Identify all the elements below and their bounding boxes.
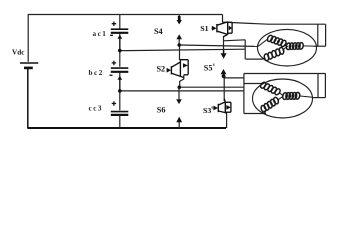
plus above c3 (112, 101, 116, 105)
S2 diode (187, 60, 189, 75)
node a wire (120, 49, 245, 51)
S1 emitter wire down (223, 36, 225, 53)
lower motor box top edge (244, 73, 326, 75)
bottom rail (28, 127, 226, 129)
S1 gate bar (216, 24, 218, 32)
S3 body (218, 102, 225, 105)
upper motor box top edge (223, 22, 326, 24)
svg-text:ac1: ac1 (93, 30, 108, 38)
long vertical wire x=243.9 (box corner to lower winding) (243, 74, 245, 114)
motor 1 (upper machine) (258, 29, 317, 66)
motor1 upper-left winding (258, 34, 287, 47)
wire below c3 (119, 116, 121, 128)
vertical x=245.4 (S1 line down to lower coil) (244, 40, 246, 59)
left wire upper (27, 14, 29, 62)
S2 diode bottom connect (184, 74, 188, 76)
S1 body (217, 22, 228, 25)
node b junction dot at capacitor column (118, 89, 122, 93)
left wire lower (27, 69, 29, 129)
S2 collector-emitter bar (179, 62, 181, 77)
S3 gate bar (217, 104, 219, 112)
motor2 upper-left winding (259, 81, 283, 96)
S3 top pin (224, 99, 225, 102)
top rail (28, 14, 223, 16)
plus/minus marks (110, 22, 117, 106)
S1 collector-emitter bar (227, 22, 229, 35)
motor 2 (lower machine) (253, 79, 313, 118)
plus above c2 (112, 61, 116, 65)
lower motor box right edge (324, 73, 326, 97)
minus below c1 (110, 34, 113, 36)
S1 down arrow to S5 (221, 53, 227, 59)
S5-S3 column wire down (223, 76, 225, 101)
node b wire (120, 90, 244, 92)
up arrow below c2 (118, 76, 123, 80)
S1 gate arrow (212, 27, 214, 29)
S1 column: rail corner down (222, 15, 224, 23)
S6 down arrow (176, 99, 182, 104)
S3 diode (225, 101, 231, 103)
S1 emitter junction line right (224, 40, 246, 41)
S4 down arrow (top stub) (178, 16, 181, 20)
svg-text:S6: S6 (157, 106, 166, 115)
M2 mid wire from S6 junction (179, 86, 244, 88)
battery Vdc short thick plate (24, 67, 33, 70)
motor1 lower-left winding (263, 47, 287, 61)
S2 top pin to diode (180, 60, 188, 62)
lower motor box inner vertical (317, 74, 319, 98)
S4 junction dot (177, 43, 181, 47)
capacitor c2 plates (111, 67, 129, 69)
S4 stem to junction (178, 39, 180, 45)
S3 gate arrow (213, 107, 215, 109)
up arrow below c1 (118, 35, 123, 39)
S5 wire right (224, 77, 244, 79)
upper motor box inner vertical (317, 24, 319, 46)
labels (12, 24, 214, 115)
S1 diode (228, 21, 232, 23)
S5 junction stem up-arrow wire (223, 74, 225, 77)
svg-text:S1: S1 (200, 24, 208, 33)
wire below c1 (119, 34, 121, 51)
IGBT S3 (213, 99, 231, 114)
svg-text:cc3: cc3 (89, 104, 103, 112)
motor1 right winding (286, 42, 314, 50)
S6 up arrow (176, 117, 182, 123)
node a junction dot at capacitor column (118, 49, 122, 53)
node b wire to motor2 lower coil (244, 113, 266, 115)
svg-text:S5: S5 (204, 64, 213, 73)
motor1 ellipse (258, 29, 317, 66)
capacitor column wire top (119, 15, 121, 29)
svg-text:bc2: bc2 (89, 69, 104, 77)
M1 mid wire from S4 junction (179, 45, 258, 46)
S3 bottom pin to bottom rail (226, 112, 228, 128)
motor2 ellipse (253, 79, 313, 118)
S3 emitter lead (225, 112, 226, 115)
S2 gate arrow (167, 69, 169, 71)
S2 body (172, 62, 181, 67)
capacitor c3 plates (111, 111, 129, 113)
IGBT S2 (167, 60, 189, 78)
S2 emitter lead (180, 76, 183, 77)
wire c2-c3 (119, 91, 121, 110)
S5 junction dot (222, 74, 226, 78)
S2 bottom pin (180, 75, 184, 87)
wire c1-c2 (119, 51, 121, 67)
S6 stem to bottom rail (178, 121, 180, 128)
battery Vdc long plate (20, 62, 38, 64)
plus above c1 (112, 22, 116, 26)
motor2 right winding (282, 92, 312, 100)
S1 emitter lead (224, 34, 228, 36)
S5 up arrow (221, 69, 227, 74)
wire to M1 lower-left coil (245, 58, 262, 60)
S6 stub below junction (178, 87, 180, 99)
S4 up arrow (to junction) (176, 34, 182, 39)
switch S4 stub from rail (178, 15, 180, 21)
S6 junction dot (178, 85, 182, 89)
svg-text:S2: S2 (157, 64, 166, 73)
junction dots (118, 43, 226, 92)
svg-text:Vdc: Vdc (12, 49, 25, 57)
arrows (118, 16, 227, 122)
wire below c2 (119, 73, 121, 91)
lower motor box bottom edge to coil (313, 97, 326, 99)
S3 collector-emitter bar (224, 102, 226, 113)
S2 top pin (179, 45, 181, 60)
upper motor box right edge (325, 24, 327, 46)
minus below c2 (110, 74, 113, 76)
upper motor box bottom edge to coil (314, 45, 326, 47)
S2 gate bar (170, 66, 172, 74)
M2 upper winding feed wire (244, 83, 262, 85)
motor2 lower-left winding (260, 97, 282, 114)
svg-text:S3: S3 (203, 106, 211, 115)
IGBT S1 (212, 22, 233, 37)
svg-text:S4: S4 (154, 27, 163, 36)
capacitor c1 plates (111, 28, 129, 30)
